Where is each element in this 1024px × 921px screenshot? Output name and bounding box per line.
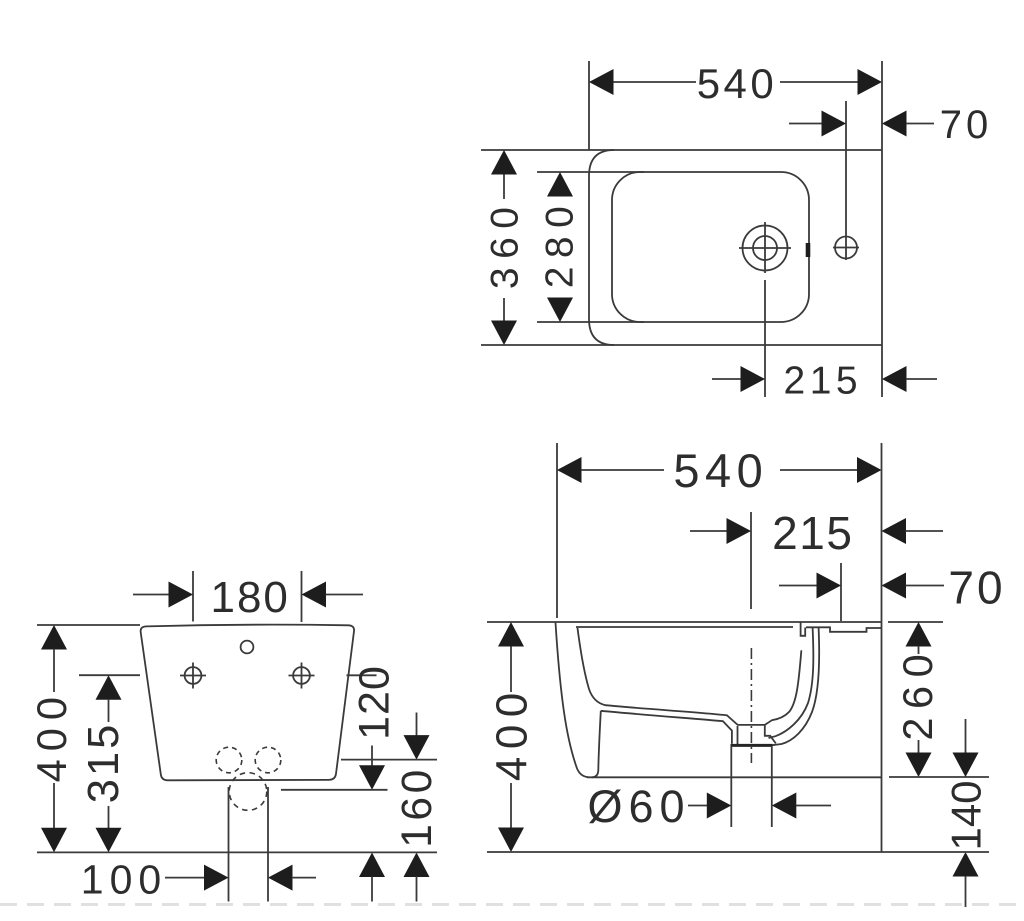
dim 540 line right part [780, 81, 859, 83]
dim 100 line left [165, 877, 205, 879]
right fixing hole [293, 667, 310, 684]
dim 70 line left [779, 585, 818, 587]
svg-text:280: 280 [538, 198, 581, 289]
dim 400 top extension line [37, 624, 140, 626]
extension line y=777 right of wall [889, 776, 989, 778]
dim 400 vertical line lower segment [510, 783, 512, 828]
dim 400 vertical lower segment [53, 783, 55, 828]
dim 160 arrow up onto baseline [404, 853, 430, 878]
dim 540 line right part [780, 469, 858, 471]
rear wall inner surface (line 1) [765, 651, 802, 725]
dim 180 line right [326, 594, 364, 596]
basin interior surface: front wall, floor, drain mouth, step [578, 628, 776, 743]
dim 260 arrow down [906, 753, 932, 778]
dim 540 arrow left [557, 457, 582, 483]
rim hook detail [801, 623, 806, 636]
left fixing hole [185, 667, 202, 684]
extension line left for 540 [588, 61, 590, 150]
dim 70 arrow onto fixture centreline [817, 573, 842, 599]
dim 215 arrow on wall [882, 518, 907, 544]
side hole crosshair horizontal [833, 247, 859, 249]
faucet crosshair horizontal [739, 247, 791, 249]
faucet crosshair vertical [764, 222, 766, 273]
svg-text:70: 70 [948, 562, 1005, 614]
side hole centre vertical line [845, 101, 847, 260]
dim 160 arrow down onto drain line [404, 735, 430, 760]
svg-text:540: 540 [673, 444, 768, 497]
dim 260 vertical line lower segment [918, 740, 920, 753]
wall extension line x=881.5 [881, 443, 883, 852]
basin shell under-line [601, 711, 732, 744]
dim 180 arrow right [302, 582, 327, 608]
dim 360 arrow down [491, 321, 517, 346]
dim 140 arrow up onto baseline [953, 852, 979, 877]
svg-text:400: 400 [28, 689, 75, 782]
svg-text:540: 540 [697, 60, 778, 107]
dim 100 arrow right [268, 865, 293, 891]
dim 70 arrow on wall [882, 573, 907, 599]
left fixing hole cross horizontal [180, 675, 206, 677]
dim 180 line left [133, 594, 170, 596]
rear wall middle line (line 2) [769, 628, 814, 738]
top view body top edge + extension line (360 top) [481, 149, 882, 151]
scan artifact dashed line bottom [0, 903, 1024, 906]
side hole circle [835, 237, 857, 259]
rear wall outer line (line 3) [772, 628, 819, 745]
dim 70 tick on fixture centreline [840, 563, 842, 621]
dim 120 arrow down onto outlet line [359, 765, 385, 790]
svg-text:400: 400 [488, 685, 537, 781]
dim 100 arrow left [204, 865, 229, 891]
dim 540 arrow right [857, 457, 882, 483]
outlet height extension line y=789.8 [281, 789, 388, 791]
svg-text:315: 315 [80, 722, 128, 804]
dim Ø60 line right [796, 805, 831, 807]
TOP VIEW GROUP [481, 60, 992, 403]
dim 215 arrow onto drain centreline [727, 518, 752, 544]
dim 215 tick on drain centreline [750, 512, 752, 609]
svg-text:215: 215 [772, 507, 853, 559]
front outer wall profile [556, 623, 589, 778]
dim 140 upper line [965, 719, 967, 753]
pedestal inner edge [592, 711, 601, 778]
SIDE VIEW GROUP [487, 443, 1006, 907]
dim 280 arrow up [547, 172, 573, 197]
dim 215 arrow on wall [882, 366, 907, 392]
dashed drain circle right [255, 747, 281, 773]
dim 360 vertical line lower segment [503, 298, 505, 322]
dim 160 upper line [416, 713, 418, 737]
drain pipe left edge [730, 746, 732, 827]
faucet hole outer circle [743, 226, 788, 271]
dim 70 line left [789, 123, 823, 125]
dim 70 line right [906, 585, 945, 587]
dim 315 arrow up [96, 675, 122, 700]
rim top line [487, 621, 881, 623]
rear baseline [37, 851, 437, 853]
dim 140 lower line [965, 876, 967, 907]
dim Ø60 arrow left [707, 793, 732, 819]
dim 70 arrow on wall [882, 111, 907, 137]
faucet hole inner circle [753, 236, 777, 260]
dim 215 arrow onto faucet centreline [741, 366, 766, 392]
drain centreline (dash-dot) [750, 648, 752, 763]
dim 315 arrow down [96, 828, 122, 853]
right fixing hole cross vertical [301, 663, 303, 689]
dim Ø60 line left [688, 805, 708, 807]
drain height extension line y=759.6 [341, 759, 437, 761]
svg-text:360: 360 [484, 199, 527, 290]
dim 540 arrow right [858, 69, 883, 95]
extension line left for 540 (front of rim) [556, 443, 558, 618]
dim 400 arrow up [41, 625, 67, 650]
right fixing hole cross horizontal [289, 675, 315, 677]
rim underside detail to wall [806, 627, 881, 632]
drain centreline extension left [228, 787, 230, 902]
svg-text:215: 215 [784, 360, 863, 403]
dim 70 arrow onto hole centreline [822, 111, 847, 137]
dim 260 arrow up [906, 622, 932, 647]
svg-text:180: 180 [210, 573, 289, 622]
dim 315 vertical upper segment [108, 699, 110, 722]
dim 120 arrow up onto baseline [359, 853, 385, 878]
dim 400 vertical upper segment [53, 649, 55, 692]
dim 140 arrow down onto y=777 [953, 753, 979, 778]
dim 360 vertical line upper segment [503, 172, 505, 199]
drain inner left wall [737, 726, 739, 744]
dim 280 extension top [537, 171, 644, 173]
dim 180 tick left (hole centreline) [192, 571, 194, 622]
dim 400 arrow down [41, 828, 67, 853]
big dashed outlet circle [229, 773, 267, 811]
dim 360 arrow up [491, 150, 517, 175]
floor baseline [487, 851, 989, 853]
svg-text:140: 140 [943, 780, 990, 850]
dim 70 line right [906, 123, 934, 125]
REAR VIEW GROUP [28, 571, 441, 903]
dim 540 arrow left [589, 69, 614, 95]
dim 180 arrow left [169, 582, 194, 608]
dim 315 vertical lower segment [108, 806, 110, 828]
top view body left edge with rounded corners [589, 150, 614, 345]
dim 400 arrow down [498, 828, 524, 853]
svg-text:Ø60: Ø60 [587, 781, 690, 832]
drain flange bottom thick line [731, 744, 773, 747]
body underside line [587, 776, 881, 778]
dim 540 line left part [581, 469, 664, 471]
rim top extension line right of wall [888, 621, 943, 623]
svg-text:70: 70 [940, 103, 993, 147]
dim 160 lower line below baseline [416, 877, 418, 902]
fixing holes right extension line [347, 674, 377, 676]
dim 100 line right [292, 877, 316, 879]
dim 540 line left part [612, 81, 696, 83]
dim 280 arrow down [547, 298, 573, 323]
drain pipe right edge [771, 746, 773, 827]
dim 120 lower line below baseline [371, 877, 373, 902]
dashed drain circle left [216, 747, 242, 773]
dim 280 extension bottom [537, 321, 644, 323]
drain centreline extension right [267, 787, 269, 902]
inner rim line [576, 626, 793, 628]
dim 215 line left [690, 530, 728, 532]
svg-text:100: 100 [81, 857, 167, 903]
dim 215 line left [712, 378, 742, 380]
inner basin rounded rectangle [612, 172, 809, 322]
dim 400 arrow up [498, 622, 524, 647]
dim 215 line right [906, 378, 937, 380]
faucet centre extension line down to 215 dim [764, 280, 766, 397]
rear body outline (trapezoid, rounded corners) [141, 625, 354, 781]
dim 180 tick right (hole centreline) [301, 571, 303, 622]
svg-text:120: 120 [350, 665, 398, 740]
overflow slot tick on basin right edge [806, 243, 811, 257]
dim Ø60 arrow right [772, 793, 797, 819]
top view body bottom edge + extension line (360 bottom) [481, 344, 882, 346]
left fixing hole cross vertical [192, 663, 194, 689]
top small hole [241, 641, 254, 654]
dim 315 top extension line [79, 674, 140, 676]
dim 120 upper line [371, 746, 373, 767]
svg-text:160: 160 [394, 766, 441, 847]
extension line right wall x=882 [881, 61, 883, 397]
svg-text:260: 260 [894, 646, 941, 741]
dim 215 line right [906, 530, 944, 532]
dim 260 vertical line upper segment [918, 646, 920, 654]
dim 400 vertical line upper segment [510, 646, 512, 692]
